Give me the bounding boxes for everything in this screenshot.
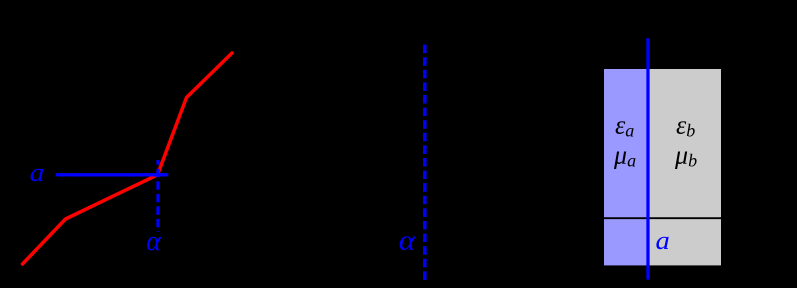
wire: blue vertical boundary line (646, 38, 649, 279)
wire: blue dashed vertical line at alpha (left panel) (156, 160, 159, 232)
wire: black horizontal interface line (604, 217, 721, 219)
svg-text:a: a (656, 226, 670, 255)
region b: gray filled rectangle (648, 69, 721, 265)
svg-text:a: a (30, 159, 45, 188)
svg-text:α: α (399, 225, 417, 256)
region a: blue filled rectangle (604, 69, 648, 265)
wire: blue dashed vertical line (middle panel) (423, 45, 427, 280)
svg-text:α: α (146, 226, 162, 257)
wire: blue horizontal level line a (segment 1) (57, 173, 65, 176)
red curve (piecewise-linear plot) (23, 53, 233, 264)
wire: blue horizontal level line a (segment 2) (68, 173, 167, 176)
